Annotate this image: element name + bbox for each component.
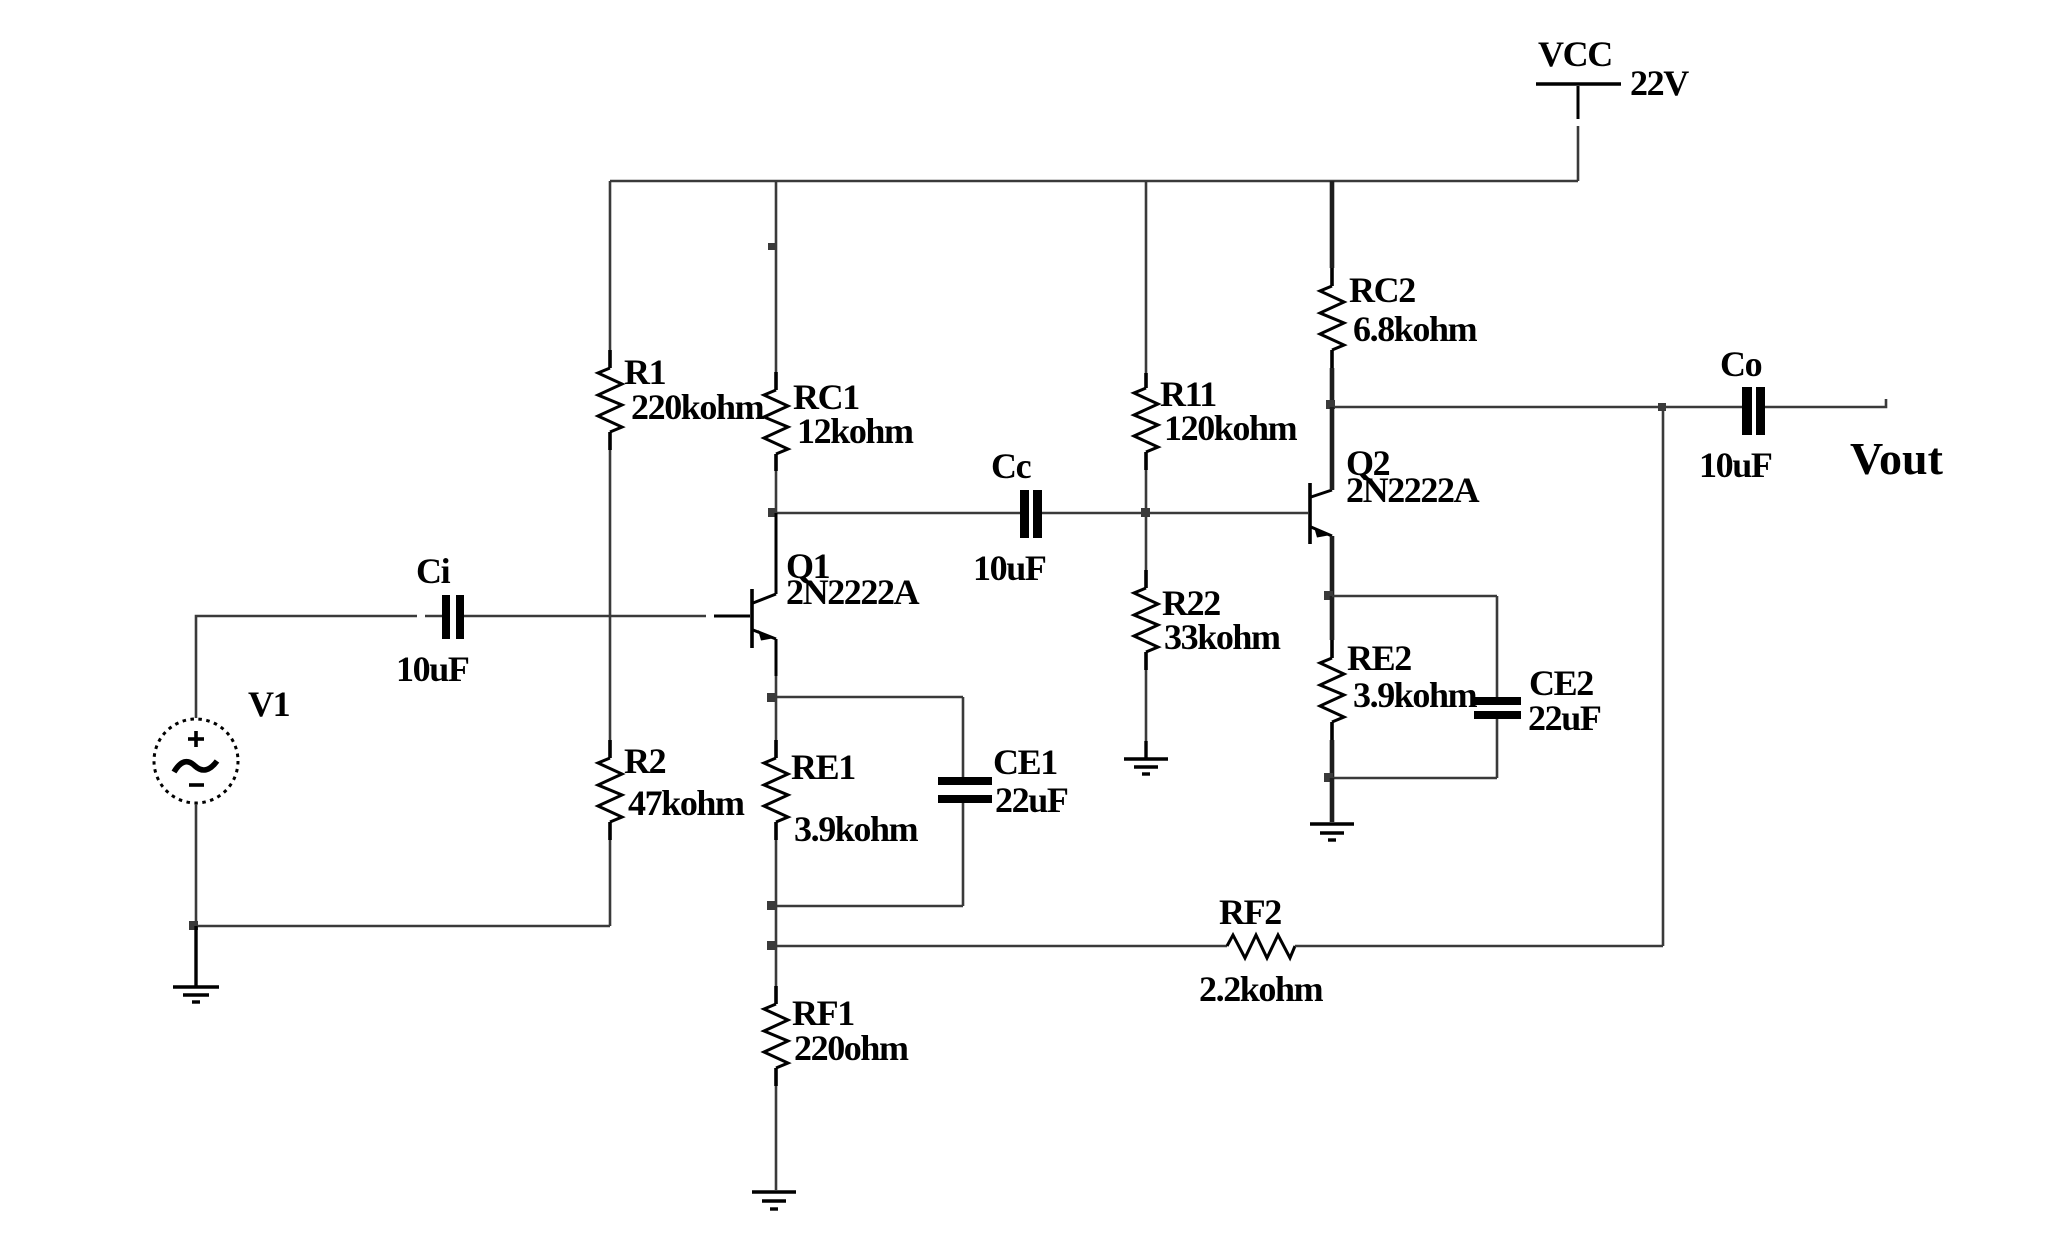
wire: R11 branch from rail: [1145, 181, 1148, 373]
svg-text:6.8kohm: 6.8kohm: [1353, 309, 1478, 349]
wire: Q1 collector up to node: [775, 513, 778, 594]
capacitor Ci: [442, 595, 464, 639]
wire: Q1 emitter down to RE1 node: [775, 639, 778, 676]
svg-text:R1: R1: [624, 352, 666, 392]
svg-text:V1: V1: [248, 684, 290, 724]
capacitor CE2: [1332, 596, 1521, 778]
svg-text:Ci: Ci: [416, 551, 451, 591]
transistor Q1 (2N2222A): [752, 589, 776, 648]
svg-text:10uF: 10uF: [396, 649, 469, 689]
junction: RE1/CE1 bottom node: [767, 901, 776, 910]
svg-text:33kohm: 33kohm: [1164, 617, 1281, 657]
wire: Cc to Q2 base (through R11/R22 node): [1042, 512, 1308, 515]
junction: V1 return node: [189, 921, 198, 930]
svg-text:22uF: 22uF: [995, 780, 1068, 820]
svg-text:3.9kohm: 3.9kohm: [794, 809, 919, 849]
svg-text:RF1: RF1: [792, 993, 854, 1033]
wire: RC2 bottom to output node: [1330, 368, 1335, 407]
resistor R1: [598, 350, 622, 450]
wire: RC1 bottom to Q1 collector node: [775, 471, 778, 513]
svg-text:3.9kohm: 3.9kohm: [1353, 675, 1478, 715]
resistor RF2 (feedback, horizontal): [776, 935, 1663, 958]
junction: Q2 emitter node: [1324, 591, 1333, 600]
svg-text:47kohm: 47kohm: [628, 783, 745, 823]
capacitor Cc: [1020, 490, 1042, 538]
ground under RE2: [1310, 824, 1354, 840]
svg-text:CE2: CE2: [1529, 663, 1593, 703]
svg-text:12kohm: 12kohm: [797, 411, 914, 451]
wire: V1 top to input wire corner: [196, 616, 417, 718]
svg-text:RC2: RC2: [1349, 270, 1415, 310]
wire: R2 bottom down to ground return wire: [609, 840, 612, 926]
svg-text:2N2222A: 2N2222A: [1346, 470, 1480, 510]
svg-text:120kohm: 120kohm: [1164, 408, 1298, 448]
svg-text:R2: R2: [624, 741, 666, 781]
wire: divider node down to R22: [1145, 513, 1148, 588]
wire: R1 branch (rail down to R1): [609, 181, 612, 350]
resistor RE1: [764, 697, 788, 906]
junction: RE2/CE2 bottom node: [1324, 773, 1333, 782]
wire: Q2 collector up to output node: [1330, 407, 1335, 490]
svg-text:RE1: RE1: [791, 747, 855, 787]
svg-text:Co: Co: [1720, 344, 1762, 384]
svg-text:Vout: Vout: [1850, 433, 1944, 484]
capacitor CE1: [776, 697, 992, 906]
junction: feedback tap on output wire: [1658, 403, 1666, 411]
svg-text:2N2222A: 2N2222A: [786, 572, 920, 612]
wire: R1 bottom to base node and on to R2: [609, 450, 612, 740]
wire: feedback vertical from output wire down to RF2: [1662, 407, 1665, 946]
wire: Q1 collector node to Cc: [776, 512, 1020, 515]
wire: RE1 bottom node down to feedback node: [775, 906, 778, 946]
junction: feedback node at RF1 top: [767, 941, 776, 950]
svg-text:CE1: CE1: [993, 742, 1057, 782]
wire: RE2 bottom to ground: [1330, 778, 1335, 822]
wire: R11 bottom to divider node: [1145, 470, 1148, 513]
svg-text:220kohm: 220kohm: [631, 387, 765, 427]
wire: Q1 base wire from Ci: [464, 615, 706, 618]
wire: R22 bottom to ground: [1145, 670, 1148, 741]
ground under V1: [173, 926, 219, 1002]
junction: Q2 collector / output node: [1326, 400, 1335, 409]
resistor RC1: [764, 372, 788, 471]
junction: R11/R22 divider node: [1141, 508, 1150, 517]
wire: RC1 branch from rail: [775, 181, 778, 372]
resistor R11: [1134, 373, 1158, 470]
transistor Q2 (2N2222A): [1310, 483, 1332, 544]
wire: Co to output terminal: [1765, 399, 1886, 407]
resistor R2: [598, 740, 622, 840]
capacitor Co: [1742, 387, 1765, 435]
svg-text:22V: 22V: [1630, 63, 1689, 103]
wire: ground return from V1 to R2 bottom: [196, 925, 610, 928]
svg-text:RF2: RF2: [1219, 892, 1281, 932]
VCC power symbol: [1536, 84, 1621, 119]
svg-text:10uF: 10uF: [1699, 445, 1772, 485]
wire: RC2 branch corner from rail: [1330, 181, 1335, 268]
svg-text:RE2: RE2: [1347, 638, 1411, 678]
svg-text:10uF: 10uF: [973, 548, 1046, 588]
svg-text:2.2kohm: 2.2kohm: [1199, 969, 1324, 1009]
svg-text:VCC: VCC: [1538, 34, 1612, 74]
voltage source V1: [154, 719, 238, 803]
wire: top supply rail: [610, 180, 1578, 183]
wire: Q2 emitter down to RE2 node: [1330, 536, 1335, 596]
resistor RC2: [1320, 268, 1344, 368]
stray pin dot on RC1 branch: [768, 243, 775, 250]
svg-text:Cc: Cc: [991, 446, 1032, 486]
ground under R22: [1124, 741, 1168, 774]
junction: Q1 collector node: [768, 508, 777, 517]
svg-text:22uF: 22uF: [1528, 698, 1601, 738]
resistor R22: [1134, 570, 1158, 670]
resistor RE2: [1320, 596, 1344, 778]
resistor RF1: [764, 946, 788, 1190]
svg-text:220ohm: 220ohm: [794, 1028, 909, 1068]
wire: output node to Co: [1332, 406, 1742, 409]
wire: VCC stub down to rail: [1577, 126, 1580, 181]
wire: V1 bottom down to return node: [195, 804, 198, 926]
junction: Q1 emitter node: [767, 693, 776, 702]
ground under RF1: [752, 1192, 796, 1209]
